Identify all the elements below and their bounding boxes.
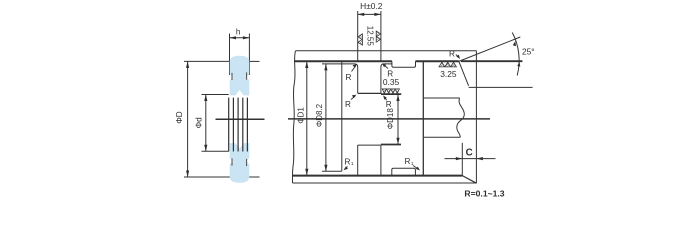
rod bottom line [424,136,461,138]
housing right edge [475,51,477,184]
centerline right view [288,118,490,120]
svg-text:25°: 25° [522,46,535,56]
groove bottom [358,92,381,94]
housing left break line (wavy) [292,51,295,183]
R leader top-left [352,66,356,72]
bottom block (mirror groove) left wall [357,145,359,175]
svg-text:H±0.2: H±0.2 [360,1,383,11]
bottom block top [358,144,381,146]
ledge surface right of groove (thick with finish marks) [381,93,401,95]
seal bottom notch edge marks [231,158,233,165]
inner step vertical line x341.8 [341,62,343,171]
C dimension line [445,158,496,160]
phiD8.2 dimension line [325,64,327,171]
phid extension lines [202,95,229,152]
svg-text:ΦD1: ΦD1 [296,107,305,124]
svg-text:R: R [405,157,411,166]
svg-text:R: R [386,100,392,109]
R leader chamfer [456,55,459,58]
svg-text:R: R [345,157,351,166]
R leader bottom-left [351,96,355,100]
housing outer top line [296,50,477,52]
R1 leader right [413,166,418,170]
bore top surface thick line (left of groove, across groove to rib) [294,60,392,62]
svg-text:R: R [345,100,351,109]
R leader right-bottom [384,97,387,100]
phiD dimension line [187,61,189,177]
R leader top-right [384,65,388,69]
dimension h : dimension line with arrows [230,37,250,39]
horizontal line from chamfer bottom going right [469,86,533,88]
seal cross-section bottom (blue) [230,143,250,183]
svg-text:h: h [236,28,241,37]
H dimension extension lines (groove walls extended up) [358,11,381,61]
svg-text:3.25: 3.25 [440,69,457,79]
bottom ledge thick [381,144,401,146]
svg-text:ΦD8.2: ΦD8.2 [315,103,324,127]
C extension line [461,143,463,176]
svg-text:Φd: Φd [195,117,204,129]
phiD1 dimension line [306,62,308,176]
svg-text:C: C [466,148,473,159]
svg-text:ΦD: ΦD [175,111,184,124]
svg-text:12.55: 12.55 [366,26,375,47]
svg-text:0.35: 0.35 [383,77,400,87]
cavity left edge vertical x423.3 [422,61,424,175]
svg-text:1: 1 [351,161,354,167]
25deg angled line [459,37,521,61]
centerline left view [216,118,265,120]
svg-text:R: R [346,73,352,82]
rod top line [424,97,460,99]
phiD extension lines [184,61,260,177]
floor thick line [293,175,463,177]
seal cross-section top (blue) [230,56,250,96]
bottom pad [392,168,416,175]
bottom block right wall [380,145,382,175]
body top surface line left of groove [322,64,358,94]
body top surface short piece right of groove [381,64,392,94]
phiD18 dimension line [397,95,399,145]
inner step line y171.2 [322,170,342,172]
finish triangles on left groove wall ext line (apex left) [358,34,363,45]
svg-text:R: R [387,69,393,78]
svg-text:R: R [449,50,455,59]
thick reference line outside right [461,60,522,62]
seal top notch edge marks [231,73,233,80]
finish triangles below top surface near chamfer [439,62,456,67]
bore top surface thick line (rib to chamfer) [416,60,459,62]
25deg arc [512,33,519,76]
bottom right chamfer [462,176,476,184]
finish triangles on ledge (pointing down) [382,89,399,94]
rib under top wall [392,61,416,67]
chamfer 25deg vertex edge [459,61,469,86]
dimension h : extension lines [230,34,250,76]
rod break curve [457,98,465,137]
finish triangles on right groove wall ext line (apex right) [376,31,381,42]
housing outer bottom line [293,182,477,184]
R1 leader left [345,167,348,169]
svg-text:R=0.1~1.3: R=0.1~1.3 [464,189,504,199]
phid dimension line [205,95,207,152]
H dimension line with arrows [358,13,381,15]
seal inner bore lines (5 verticals) [229,98,248,152]
